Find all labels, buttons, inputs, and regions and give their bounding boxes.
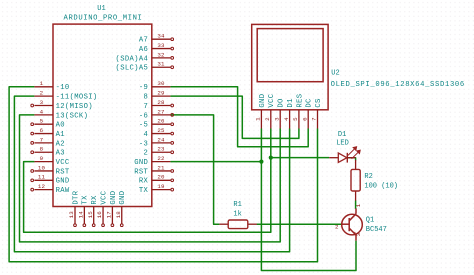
svg-text:-6: -6 — [139, 112, 148, 120]
svg-text:-10: -10 — [56, 84, 70, 92]
svg-text:A0: A0 — [56, 122, 65, 130]
svg-text:5: 5 — [292, 117, 299, 121]
wire net VCC: U1 pin9 to OLED pin2 — [24, 129, 271, 233]
resistor R1 pins — [219, 223, 228, 225]
U1 right pin 25 4 — [152, 133, 171, 135]
svg-text:ARDUINO_PRO_MINI: ARDUINO_PRO_MINI — [64, 15, 143, 23]
svg-text:RES: RES — [296, 94, 304, 108]
wire net GND: U1 pin22 to OLED pin1 and Q1 emitter — [170, 161, 261, 163]
svg-text:1k: 1k — [233, 211, 241, 219]
svg-text:U2: U2 — [331, 70, 339, 78]
svg-text:17: 17 — [106, 211, 113, 219]
svg-text:DO: DO — [278, 98, 286, 107]
svg-text:10: 10 — [38, 164, 46, 171]
svg-text:LED: LED — [336, 139, 349, 147]
svg-text:GND: GND — [134, 159, 148, 167]
svg-text:5: 5 — [40, 118, 44, 125]
wire net MOSI-D1: U1 pin2 to OLED pin4 — [14, 96, 289, 252]
wire net D8-RES: U1 pin29 to OLED pin5 — [170, 96, 299, 138]
U1 left pin 11 GND — [34, 179, 53, 181]
U2 pin 3 DO — [279, 110, 281, 129]
svg-text:RX: RX — [139, 178, 149, 186]
wire net D9-DC: U1 pin30 to OLED pin6 — [170, 87, 308, 147]
svg-text:2: 2 — [144, 150, 149, 158]
svg-text:4: 4 — [283, 117, 290, 121]
svg-text:Q1: Q1 — [366, 216, 374, 224]
svg-text:21: 21 — [157, 164, 165, 171]
svg-text:25: 25 — [157, 127, 165, 134]
U1 right pin 30 -9 — [152, 86, 171, 88]
U1 left pin 6 A1 — [34, 133, 53, 135]
U2 pin 2 VCC — [270, 110, 272, 129]
IC U1 ARDUINO_PRO_MINI body — [53, 24, 152, 206]
junction GND at OLED pin1 column — [259, 160, 263, 164]
svg-text:16: 16 — [96, 211, 103, 219]
svg-text:12(MISO): 12(MISO) — [56, 103, 93, 111]
svg-text:8: 8 — [40, 146, 44, 153]
U1 left pin 5 A0 — [34, 123, 53, 125]
svg-text:19: 19 — [157, 183, 165, 190]
svg-text:23: 23 — [157, 146, 165, 153]
svg-text:D1: D1 — [287, 98, 295, 107]
svg-text:GND: GND — [259, 94, 267, 108]
svg-text:13(SCK): 13(SCK) — [56, 112, 89, 120]
svg-text:1: 1 — [255, 117, 262, 121]
U1 left pin 7 A2 — [34, 142, 53, 144]
U1 left pin 3 12(MISO) — [34, 105, 53, 107]
svg-text:GND: GND — [110, 191, 118, 205]
U1 right pin 23 2 — [152, 151, 171, 153]
svg-text:VCC: VCC — [100, 190, 108, 204]
U1 bottom pin 18 GND — [121, 207, 123, 225]
svg-text:-3: -3 — [139, 140, 148, 148]
resistor R2 body — [351, 169, 360, 191]
svg-text:8: 8 — [144, 94, 149, 102]
diode D1 LED symbol — [329, 157, 338, 159]
U2 pin 7 CS — [317, 110, 319, 129]
svg-text:RST: RST — [134, 168, 148, 176]
U1 left pin 2 -11(MOSI) — [34, 95, 53, 97]
U1 bottom pin 17 GND — [111, 207, 113, 225]
svg-text:2: 2 — [40, 90, 44, 97]
U1 left pin 12 RAW — [34, 189, 53, 191]
svg-text:(SDA)A4: (SDA)A4 — [116, 55, 149, 63]
U2 pin 5 RES — [298, 110, 300, 129]
svg-text:9: 9 — [40, 155, 44, 162]
svg-text:GND: GND — [56, 178, 70, 186]
svg-text:A3: A3 — [56, 150, 65, 158]
U1 right pin 34 A7 — [152, 38, 171, 40]
U1 right pin 29 8 — [152, 95, 171, 97]
svg-text:3: 3 — [273, 117, 280, 121]
svg-text:BC547: BC547 — [366, 226, 387, 234]
wire R2 bottom to Q1 collector — [355, 191, 357, 201]
resistor R1 body — [228, 220, 248, 229]
svg-text:TX: TX — [82, 195, 90, 205]
U1 right pin 33 A6 — [152, 48, 171, 50]
svg-text:33: 33 — [157, 42, 165, 49]
svg-text:-5: -5 — [139, 122, 148, 130]
svg-text:24: 24 — [157, 136, 165, 143]
svg-text:28: 28 — [157, 99, 165, 106]
svg-text:R2: R2 — [364, 173, 372, 181]
svg-text:4: 4 — [144, 131, 149, 139]
svg-text:1: 1 — [355, 203, 362, 207]
svg-text:100 (10): 100 (10) — [364, 183, 398, 191]
wire net D10-CS: U1 pin1 to OLED pin7 — [9, 87, 317, 262]
svg-text:20: 20 — [157, 174, 165, 181]
svg-text:DC: DC — [306, 98, 314, 108]
svg-text:34: 34 — [157, 33, 165, 40]
U1 bottom pin 14 TX — [83, 207, 85, 225]
svg-text:1: 1 — [40, 80, 44, 87]
svg-text:22: 22 — [157, 155, 165, 162]
svg-text:-9: -9 — [139, 84, 148, 92]
U1 left pin 8 A3 — [34, 151, 53, 153]
svg-text:27: 27 — [157, 108, 165, 115]
svg-text:-11(MOSI): -11(MOSI) — [56, 94, 98, 102]
svg-text:7: 7 — [311, 117, 318, 121]
Q1 emitter arrow — [353, 232, 356, 236]
svg-text:29: 29 — [157, 90, 165, 97]
svg-text:31: 31 — [157, 61, 165, 68]
U1 right pin 19 TX — [152, 189, 171, 191]
U1 right pin 28 7 — [152, 105, 171, 107]
U2 pin 1 GND — [260, 110, 262, 129]
svg-text:2: 2 — [264, 117, 271, 121]
U1 right pin 22 GND — [152, 161, 171, 163]
svg-text:TX: TX — [139, 187, 149, 195]
U1 right pin 20 RX — [152, 179, 171, 181]
U2 pin 4 D1 — [289, 110, 291, 129]
svg-text:3: 3 — [40, 99, 44, 106]
svg-text:VCC: VCC — [56, 159, 70, 167]
U1 right pin 26 -5 — [152, 123, 171, 125]
svg-text:14: 14 — [78, 211, 85, 219]
svg-text:D1: D1 — [338, 131, 346, 139]
svg-text:R1: R1 — [233, 201, 241, 209]
svg-text:RX: RX — [91, 195, 99, 205]
U1 left pin 4 13(SCK) — [34, 114, 53, 116]
U1 left pin 1 -10 — [34, 86, 53, 88]
U1 right pin 27 -6 — [152, 114, 171, 116]
svg-text:OLED_SPI_096_128X64_SSD1306: OLED_SPI_096_128X64_SSD1306 — [331, 81, 465, 89]
wire R1 right to Q1 base — [257, 223, 342, 225]
svg-text:VCC: VCC — [268, 93, 276, 107]
U2 pin 6 DC — [307, 110, 309, 129]
svg-text:U1: U1 — [97, 5, 105, 13]
svg-text:DTR: DTR — [72, 190, 80, 204]
svg-text:26: 26 — [157, 118, 165, 125]
svg-text:A1: A1 — [56, 131, 65, 139]
svg-text:A6: A6 — [139, 46, 148, 54]
U1 right pin 32 (SDA)A4 — [152, 57, 171, 59]
svg-text:2: 2 — [335, 223, 339, 230]
wire LED cathode to R2 top — [347, 158, 355, 161]
U1 bottom pin 15 RX — [93, 207, 95, 225]
svg-text:6: 6 — [40, 127, 44, 134]
U1 left pin 10 RST — [34, 170, 53, 172]
svg-text:(SLC)A5: (SLC)A5 — [116, 65, 149, 73]
svg-text:11: 11 — [38, 174, 46, 181]
U1 right pin 24 -3 — [152, 142, 171, 144]
module U2 OLED body — [252, 24, 328, 109]
svg-text:GND: GND — [119, 191, 127, 205]
svg-text:RST: RST — [56, 168, 70, 176]
svg-text:13: 13 — [68, 211, 75, 219]
LED arrows — [348, 147, 360, 159]
svg-text:30: 30 — [157, 80, 165, 87]
wire net D6: U1 pin27 to R1 left — [170, 115, 219, 224]
U1 bottom pin 13 DTR — [74, 207, 76, 225]
svg-text:7: 7 — [144, 103, 149, 111]
svg-text:3: 3 — [355, 232, 362, 236]
svg-text:18: 18 — [115, 211, 122, 219]
wire net SCK-D0: U1 pin4 to OLED pin3 — [20, 115, 281, 242]
wire net VCC branch to LED anode — [271, 157, 329, 159]
U2 OLED screen inner rect — [257, 29, 323, 82]
junction VCC at OLED pin2 column — [269, 156, 273, 160]
svg-text:12: 12 — [38, 183, 46, 190]
svg-text:15: 15 — [87, 211, 94, 219]
svg-text:A2: A2 — [56, 140, 65, 148]
svg-text:32: 32 — [157, 51, 165, 58]
svg-text:RAW: RAW — [56, 187, 70, 195]
U1 right pin 21 RST — [152, 170, 171, 172]
U1 right pin 31 (SLC)A5 — [152, 66, 171, 68]
U1 left pin 9 VCC — [34, 161, 53, 163]
svg-text:6: 6 — [301, 117, 308, 121]
svg-text:4: 4 — [40, 108, 44, 115]
svg-text:7: 7 — [40, 136, 44, 143]
svg-text:CS: CS — [315, 98, 323, 107]
U1 bottom pin 16 VCC — [102, 207, 104, 225]
transistor Q1 BC547 — [342, 214, 363, 235]
svg-text:A7: A7 — [139, 37, 148, 45]
